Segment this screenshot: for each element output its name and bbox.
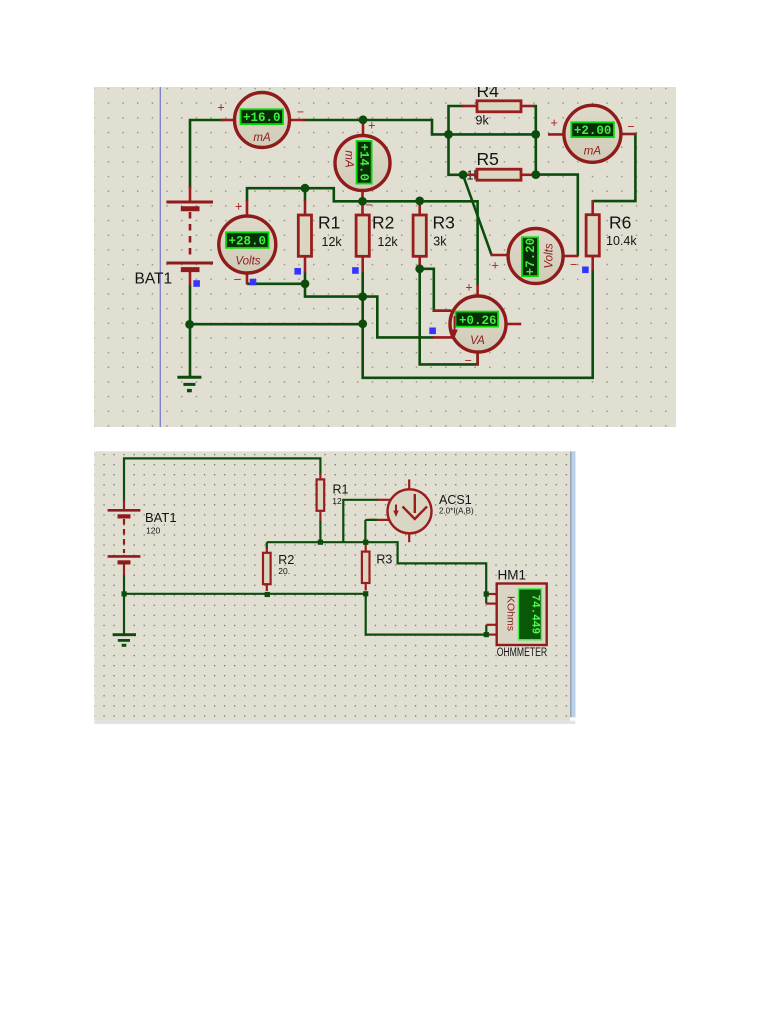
svg-text:mA: mA [253, 132, 271, 144]
svg-text:KOhms: KOhms [505, 596, 517, 631]
svg-text:R6: R6 [609, 213, 631, 233]
svg-text:R5: R5 [477, 149, 499, 169]
svg-text:R2: R2 [372, 213, 394, 233]
svg-text:+2.00: +2.00 [574, 124, 612, 138]
svg-text:+: + [551, 116, 558, 130]
svg-text:+: + [492, 259, 499, 273]
svg-text:+28.0: +28.0 [228, 235, 266, 249]
svg-text:10.4k: 10.4k [606, 234, 637, 248]
svg-text:12k: 12k [378, 235, 399, 249]
svg-text:R4: R4 [477, 87, 500, 101]
svg-text:2.0*I(A,B): 2.0*I(A,B) [439, 506, 474, 515]
svg-text:+0.26: +0.26 [459, 314, 497, 328]
svg-text:R3: R3 [376, 552, 392, 566]
svg-text:74.449: 74.449 [529, 594, 541, 634]
svg-text:+: + [235, 200, 242, 214]
svg-text:R1: R1 [318, 213, 340, 233]
svg-text:12: 12 [332, 496, 342, 506]
svg-text:−: − [570, 258, 577, 272]
svg-text:R1: R1 [333, 483, 349, 497]
svg-text:+14.0: +14.0 [357, 143, 371, 181]
svg-text:BAT1: BAT1 [135, 271, 173, 288]
svg-text:−: − [234, 273, 241, 287]
svg-text:+: + [368, 119, 375, 133]
svg-text:+16.0: +16.0 [243, 111, 281, 125]
svg-text:R3: R3 [433, 213, 455, 233]
svg-text:HM1: HM1 [498, 568, 527, 583]
svg-text:20.: 20. [278, 566, 290, 576]
svg-text:OHMMETER: OHMMETER [497, 647, 548, 659]
svg-text:9k: 9k [476, 114, 490, 128]
svg-text:120: 120 [146, 526, 160, 536]
svg-text:+7.20: +7.20 [524, 238, 538, 276]
svg-text:VA: VA [470, 335, 485, 347]
svg-text:+: + [465, 281, 472, 295]
svg-text:ACS1: ACS1 [439, 493, 472, 507]
svg-text:12k: 12k [322, 235, 343, 249]
svg-text:mA: mA [343, 150, 355, 168]
svg-text:−: − [465, 354, 472, 368]
svg-text:−: − [627, 120, 634, 134]
svg-text:Volts: Volts [544, 243, 556, 268]
svg-text:−: − [297, 105, 304, 119]
svg-text:mA: mA [584, 146, 602, 158]
svg-text:BAT1: BAT1 [145, 510, 177, 525]
svg-text:+: + [217, 101, 224, 115]
svg-text:Volts: Volts [235, 256, 260, 268]
svg-text:−: − [366, 198, 373, 212]
svg-text:3k: 3k [433, 234, 447, 248]
